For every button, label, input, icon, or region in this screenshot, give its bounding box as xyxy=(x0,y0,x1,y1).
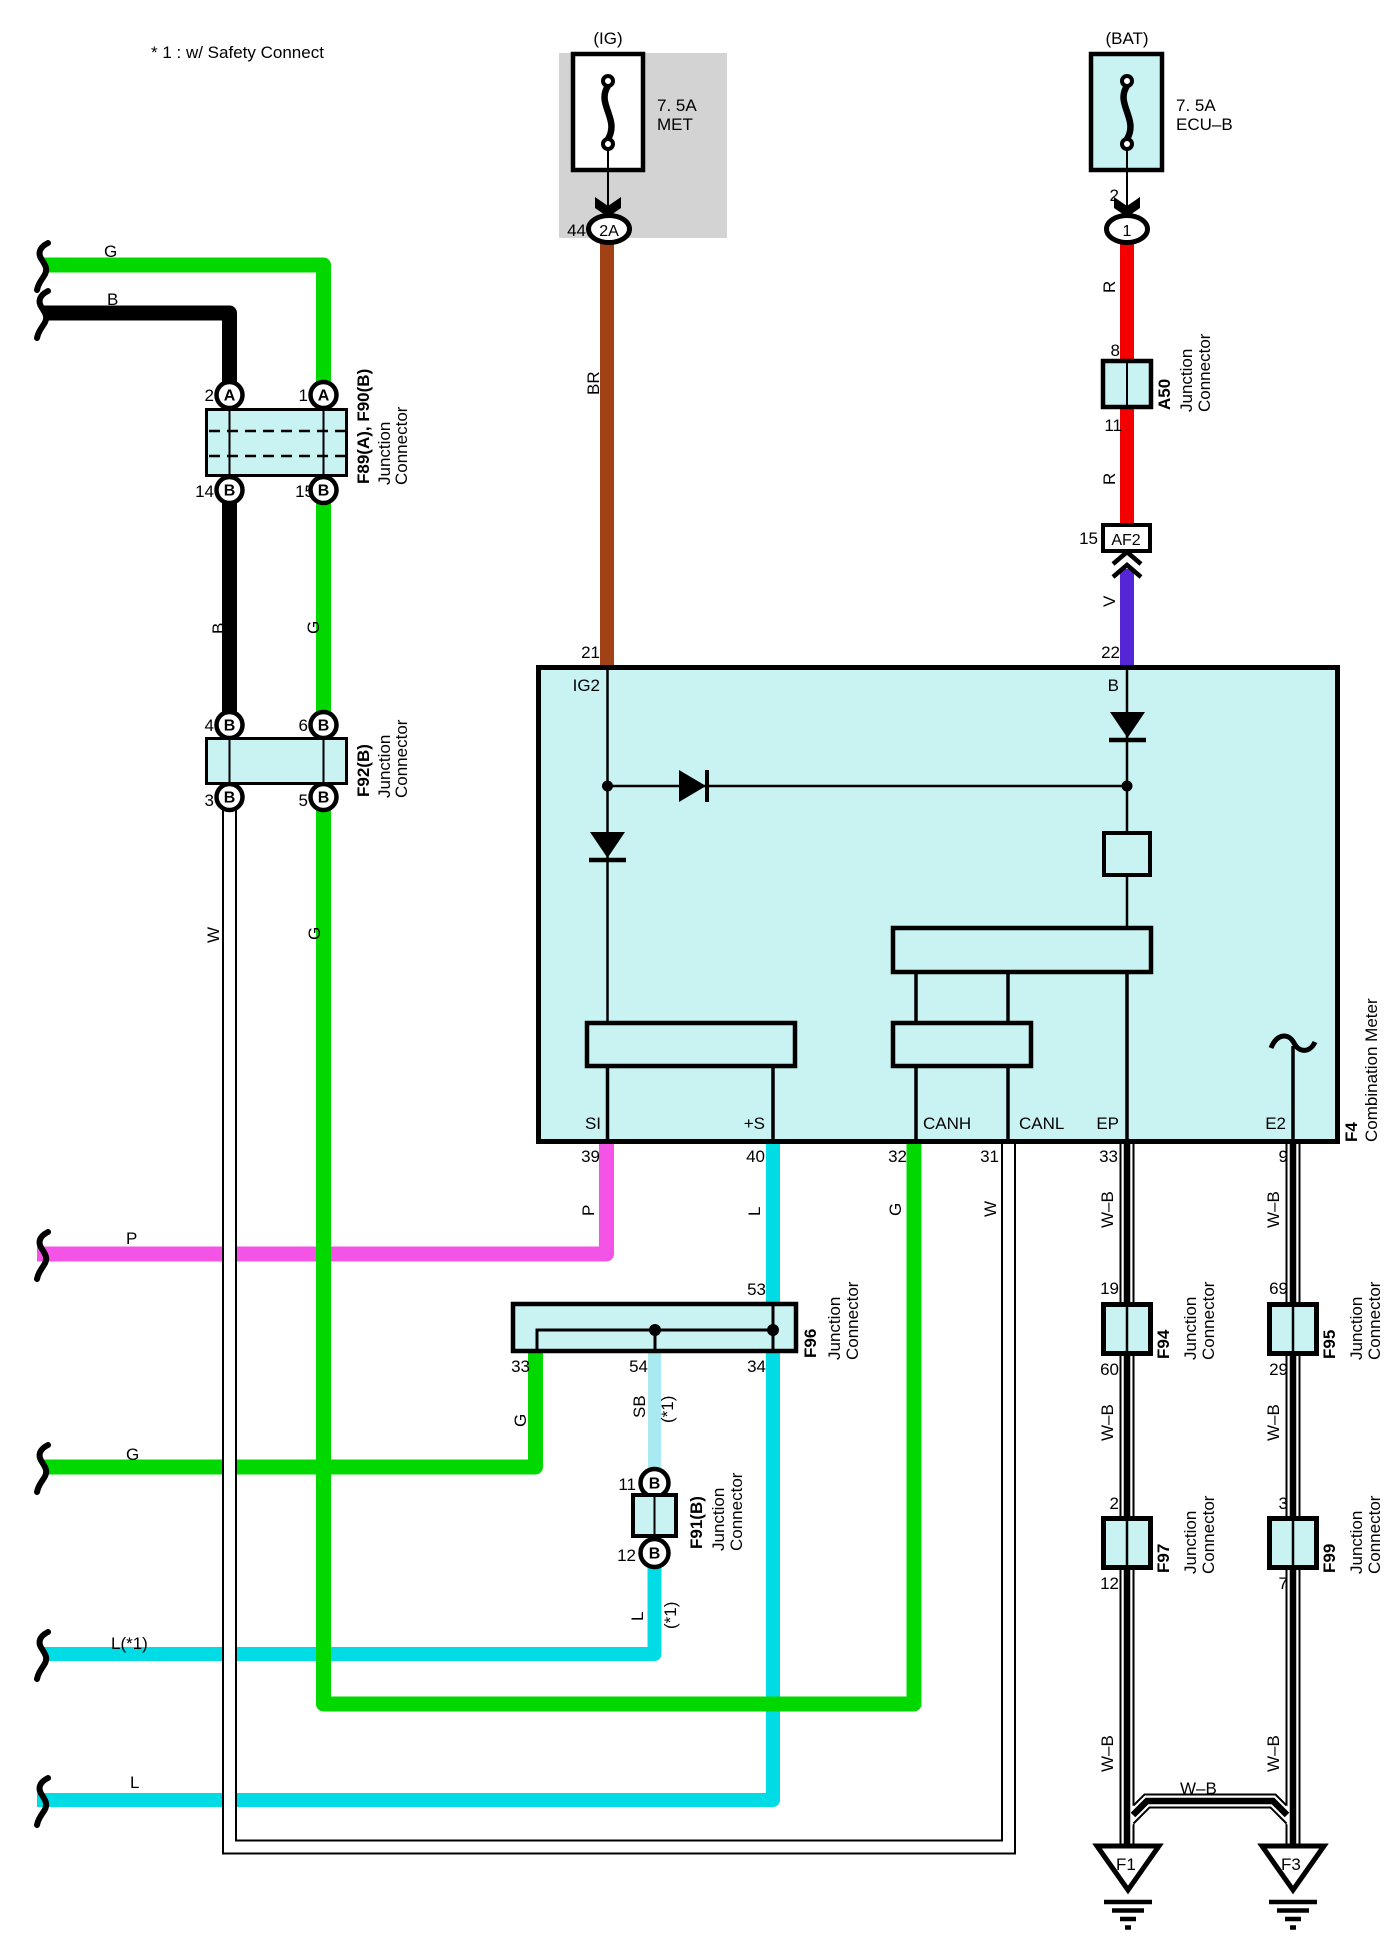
internal SI block xyxy=(587,1023,795,1066)
svg-text:EP: EP xyxy=(1096,1114,1119,1133)
wire B (black) left edge to F89 pin 2 xyxy=(44,313,230,384)
internal CAN block xyxy=(893,1023,1031,1066)
svg-text:60: 60 xyxy=(1100,1360,1119,1379)
diode down on B line xyxy=(1109,712,1146,740)
svg-text:Connector: Connector xyxy=(1365,1281,1384,1360)
svg-text:1: 1 xyxy=(1123,223,1132,240)
arrow into connector 1 xyxy=(1114,197,1140,217)
svg-text:44: 44 xyxy=(567,221,586,240)
junction connector F95 xyxy=(1270,1304,1317,1354)
svg-text:L(*1): L(*1) xyxy=(111,1634,148,1653)
pin CANH line xyxy=(914,1066,918,1142)
continuation squiggle B top xyxy=(37,291,48,338)
svg-text:5: 5 xyxy=(299,791,308,810)
svg-text:15: 15 xyxy=(295,482,314,501)
svg-text:21: 21 xyxy=(581,643,600,662)
junction connector F94 xyxy=(1104,1304,1151,1354)
svg-text:B: B xyxy=(107,290,118,309)
svg-text:CANH: CANH xyxy=(923,1114,971,1133)
arrow chevrons below AF2 xyxy=(1113,552,1141,577)
svg-text:ECU–B: ECU–B xyxy=(1176,115,1233,134)
connector oval 2A xyxy=(589,216,630,243)
svg-text:19: 19 xyxy=(1100,1279,1119,1298)
svg-text:Junction: Junction xyxy=(1347,1297,1366,1360)
svg-text:F4: F4 xyxy=(1342,1122,1361,1142)
wire L (cyan) from +S pin 40 down to F96 pin 53 xyxy=(766,1142,780,1303)
pin E2 line xyxy=(1291,1046,1295,1142)
svg-text:2A: 2A xyxy=(599,223,619,240)
svg-text:7. 5A: 7. 5A xyxy=(1176,96,1216,115)
ground F1 xyxy=(1097,1846,1159,1928)
svg-text:F97: F97 xyxy=(1154,1544,1173,1573)
svg-text:B: B xyxy=(209,623,228,634)
svg-text:W–B: W–B xyxy=(1098,1735,1117,1772)
svg-text:Connector: Connector xyxy=(1195,333,1214,412)
svg-text:Junction: Junction xyxy=(1181,1511,1200,1574)
svg-text:AF2: AF2 xyxy=(1111,532,1140,549)
svg-text:39: 39 xyxy=(581,1147,600,1166)
svg-text:W–B: W–B xyxy=(1264,1404,1283,1441)
svg-text:11: 11 xyxy=(1104,416,1122,435)
node on B line xyxy=(1122,781,1133,792)
wire G (green) left edge to F96 pin 33 xyxy=(44,1353,536,1467)
pin CANL line xyxy=(1006,1066,1010,1142)
connector oval 1 xyxy=(1107,216,1148,243)
svg-text:G: G xyxy=(126,1445,139,1464)
svg-text:12: 12 xyxy=(617,1546,636,1565)
IG fuse gray background xyxy=(559,53,727,238)
svg-text:B: B xyxy=(224,483,236,500)
svg-text:E2: E2 xyxy=(1265,1114,1286,1133)
wire W-B from E2 pin 9 down to ground F3 xyxy=(1287,1142,1300,1846)
svg-text:W–B: W–B xyxy=(1180,1779,1217,1798)
resistor box on B line xyxy=(1104,833,1150,875)
svg-text:Junction: Junction xyxy=(825,1297,844,1360)
svg-text:IG2: IG2 xyxy=(573,676,600,695)
svg-text:G: G xyxy=(886,1203,905,1216)
WIRES-LAYER xyxy=(37,243,1300,1854)
wire P (pink) from SI pin 39 to left edge xyxy=(37,1142,607,1254)
svg-text:B: B xyxy=(1108,676,1119,695)
svg-text:7. 5A: 7. 5A xyxy=(657,96,697,115)
svg-text:SB: SB xyxy=(630,1395,649,1418)
line block to CAN block left xyxy=(914,972,918,1023)
svg-text:W: W xyxy=(204,927,223,943)
svg-text:W–B: W–B xyxy=(1264,1191,1283,1228)
svg-text:A: A xyxy=(224,388,236,405)
svg-text:B: B xyxy=(224,718,236,735)
svg-text:* 1 : w/ Safety Connect: * 1 : w/ Safety Connect xyxy=(151,43,324,62)
wire W (white) CANL pin 31 down, left, up to F92 pin 3 xyxy=(223,810,1015,1854)
svg-text:(BAT): (BAT) xyxy=(1105,29,1148,48)
junction connector F96 xyxy=(513,1303,796,1353)
wire G (green) F89 pin 15 to F92 pin 6 xyxy=(316,503,331,713)
continuation squiggle L(*1) xyxy=(37,1632,48,1679)
svg-text:G: G xyxy=(305,927,324,940)
svg-text:Connector: Connector xyxy=(1199,1495,1218,1574)
svg-text:SI: SI xyxy=(585,1114,601,1133)
node on IG2 line xyxy=(602,781,613,792)
svg-text:F91(B): F91(B) xyxy=(687,1496,706,1549)
svg-text:34: 34 xyxy=(747,1357,766,1376)
svg-text:Connector: Connector xyxy=(392,719,411,798)
internal wire node to node xyxy=(608,785,1128,788)
svg-text:L: L xyxy=(628,1612,647,1621)
junction connector F99 xyxy=(1270,1518,1317,1568)
svg-text:R: R xyxy=(1100,473,1119,485)
svg-text:33: 33 xyxy=(511,1357,530,1376)
svg-text:Combination Meter: Combination Meter xyxy=(1362,998,1381,1142)
svg-text:3: 3 xyxy=(1279,1494,1288,1513)
svg-text:33: 33 xyxy=(1099,1147,1118,1166)
svg-text:B: B xyxy=(318,483,330,500)
svg-text:F96: F96 xyxy=(801,1329,820,1358)
svg-text:Connector: Connector xyxy=(392,406,411,485)
svg-text:F94: F94 xyxy=(1154,1329,1173,1359)
svg-text:F89(A), F90(B): F89(A), F90(B) xyxy=(354,369,373,484)
svg-text:B: B xyxy=(318,718,330,735)
svg-text:B: B xyxy=(649,1476,661,1493)
svg-text:40: 40 xyxy=(746,1147,765,1166)
svg-text:14: 14 xyxy=(195,482,214,501)
pin SI line xyxy=(606,1066,610,1142)
svg-text:Connector: Connector xyxy=(1365,1495,1384,1574)
svg-text:F3: F3 xyxy=(1281,1855,1301,1874)
svg-text:54: 54 xyxy=(629,1357,648,1376)
svg-text:Junction: Junction xyxy=(1181,1297,1200,1360)
svg-text:69: 69 xyxy=(1269,1279,1288,1298)
svg-text:A: A xyxy=(318,388,330,405)
arrow into connector 2A xyxy=(595,197,621,217)
svg-text:R: R xyxy=(1100,281,1119,293)
svg-text:15: 15 xyxy=(1079,529,1098,548)
svg-text:4: 4 xyxy=(205,716,214,735)
svg-text:F92(B): F92(B) xyxy=(354,744,373,797)
svg-text:B: B xyxy=(318,790,330,807)
svg-text:A50: A50 xyxy=(1155,379,1174,410)
svg-text:9: 9 xyxy=(1279,1147,1288,1166)
fuse 7.5A MET (IG) xyxy=(573,29,643,206)
E2 coil squiggle xyxy=(1271,1036,1315,1050)
combination meter box F4 xyxy=(539,668,1338,1142)
fuse 7.5A ECU-B (BAT) xyxy=(1091,29,1162,206)
wire L (cyan) from F96 pin 34 down and left to edge xyxy=(37,1352,773,1800)
wire G (green) F92 pin 5 down, right, up to CANH pin 32 xyxy=(324,810,915,1704)
svg-text:BR: BR xyxy=(584,371,603,395)
svg-text:12: 12 xyxy=(1100,1574,1119,1593)
svg-text:F95: F95 xyxy=(1320,1330,1339,1359)
svg-text:Connector: Connector xyxy=(1199,1281,1218,1360)
continuation squiggle L bottom xyxy=(37,1778,48,1825)
svg-text:P: P xyxy=(126,1229,137,1248)
svg-text:(*1): (*1) xyxy=(658,1396,677,1423)
wire B (black) F89 pin 14 to F92 pin 4 xyxy=(222,503,237,713)
svg-text:8: 8 xyxy=(1111,341,1120,360)
ground F3 xyxy=(1262,1846,1324,1928)
pin IG2 internal line xyxy=(606,667,609,1022)
junction connector F89(A), F90(B) xyxy=(207,382,347,503)
junction connector F91(B) xyxy=(633,1469,676,1567)
svg-text:32: 32 xyxy=(888,1147,907,1166)
svg-text:29: 29 xyxy=(1269,1360,1288,1379)
pin EP line xyxy=(1125,972,1129,1142)
svg-text:3: 3 xyxy=(205,791,214,810)
svg-text:31: 31 xyxy=(980,1147,999,1166)
svg-text:G: G xyxy=(104,242,117,261)
wire R (red) A50 pin 11 to AF2 pin 15 xyxy=(1120,409,1134,525)
junction connector A50 xyxy=(1103,361,1151,407)
svg-text:W: W xyxy=(981,1201,1000,1217)
svg-text:Junction: Junction xyxy=(1347,1511,1366,1574)
svg-text:2: 2 xyxy=(205,386,214,405)
junction connector F97 xyxy=(1104,1518,1151,1568)
wire W-B black core E2 leg xyxy=(1290,1142,1297,1846)
svg-text:G: G xyxy=(511,1414,530,1427)
svg-text:P: P xyxy=(579,1205,598,1216)
line block to CAN block right xyxy=(1006,972,1010,1023)
wire G (green) left edge to F89 pin 1 xyxy=(44,265,324,384)
svg-text:F99: F99 xyxy=(1320,1544,1339,1573)
svg-text:W–B: W–B xyxy=(1264,1735,1283,1772)
svg-text:Connector: Connector xyxy=(727,1472,746,1551)
svg-text:1: 1 xyxy=(299,386,308,405)
svg-text:22: 22 xyxy=(1101,643,1120,662)
diode down on IG2 line xyxy=(589,832,626,860)
continuation squiggle P xyxy=(37,1232,48,1279)
svg-text:(*1): (*1) xyxy=(661,1602,680,1629)
svg-text:(IG): (IG) xyxy=(593,29,622,48)
svg-text:V: V xyxy=(1100,595,1119,607)
wire L(*1) (cyan) from left edge to F91(B) pin 12 xyxy=(44,1567,655,1654)
svg-text:11: 11 xyxy=(618,1475,636,1494)
svg-text:+S: +S xyxy=(744,1114,765,1133)
continuation squiggle G top xyxy=(37,243,48,290)
connector AF2 xyxy=(1103,525,1150,551)
wire W-B black core jumper xyxy=(1133,1801,1287,1815)
wire SB (*1) pale blue from F96 pin 54 to F91(B) pin 11 xyxy=(648,1352,661,1470)
junction connector F92(B) xyxy=(207,712,347,810)
wire V (violet) AF2 to B pin 22 xyxy=(1120,569,1134,668)
wire W-B from EP pin 33 down to ground F1 xyxy=(1121,1142,1134,1846)
svg-text:6: 6 xyxy=(299,716,308,735)
svg-text:F1: F1 xyxy=(1116,1855,1136,1874)
svg-text:L: L xyxy=(130,1773,139,1792)
svg-text:G: G xyxy=(304,621,323,634)
wire BR (brown) from fuse MET to IG2 pin 21 xyxy=(600,243,614,668)
line resistor to big block xyxy=(1126,875,1129,929)
svg-text:MET: MET xyxy=(657,115,693,134)
svg-text:L: L xyxy=(745,1207,764,1216)
pin B internal line xyxy=(1126,667,1129,832)
svg-text:B: B xyxy=(224,790,236,807)
svg-text:Junction: Junction xyxy=(709,1488,728,1551)
svg-text:W–B: W–B xyxy=(1098,1404,1117,1441)
diode right on node wire xyxy=(679,770,707,802)
svg-text:CANL: CANL xyxy=(1019,1114,1064,1133)
svg-text:53: 53 xyxy=(747,1280,766,1299)
svg-text:2: 2 xyxy=(1110,1494,1119,1513)
svg-text:Connector: Connector xyxy=(843,1281,862,1360)
svg-text:Junction: Junction xyxy=(1177,349,1196,412)
svg-text:B: B xyxy=(649,1546,661,1563)
svg-text:W–B: W–B xyxy=(1098,1191,1117,1228)
pin +S line xyxy=(771,1066,775,1142)
wire W-B black core EP leg xyxy=(1124,1142,1131,1846)
continuation squiggle G lower xyxy=(37,1445,48,1492)
wire R (red) fuse ECU-B to A50 pin 8 xyxy=(1120,243,1134,361)
wire W-B jumper between F1 and F3 legs xyxy=(1127,1795,1293,1824)
internal block upper (meter circuit) xyxy=(893,928,1151,972)
svg-text:7: 7 xyxy=(1279,1574,1288,1593)
